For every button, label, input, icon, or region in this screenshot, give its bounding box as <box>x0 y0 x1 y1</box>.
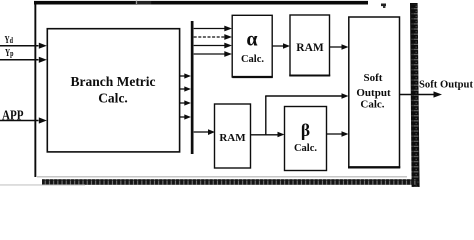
outer frame left edge <box>34 1 36 177</box>
wire beta to Soft Output <box>327 133 343 135</box>
outer frame bottom bar <box>0 177 418 186</box>
outer frame right bar <box>410 3 420 187</box>
wire bus to alpha 2 <box>194 36 225 38</box>
svg-text:α: α <box>246 29 257 51</box>
svg-text:Calc.: Calc. <box>241 54 264 65</box>
wire BM to bus 2 <box>180 88 186 90</box>
svg-text:Output: Output <box>356 87 391 99</box>
wire RAM2 to beta <box>251 134 279 136</box>
svg-text:Branch Metric: Branch Metric <box>70 74 155 89</box>
svg-text:Soft Output: Soft Output <box>419 79 473 91</box>
wire BM to bus 1 <box>180 75 186 77</box>
wire BM to bus 3 <box>180 102 186 104</box>
block RAM (lower) <box>215 104 251 168</box>
svg-text:Yd: Yd <box>5 35 14 46</box>
wire input Yp <box>0 59 39 61</box>
block RAM (upper) <box>289 15 330 76</box>
wire bus to alpha 3 <box>194 45 225 47</box>
speck noise <box>383 6 385 8</box>
wire bus to RAM2 <box>194 131 209 133</box>
svg-text:Calc.: Calc. <box>294 143 317 154</box>
block beta Calc. <box>285 107 327 171</box>
block Soft Output Calc. <box>348 17 400 168</box>
wire Soft Output result <box>400 94 434 96</box>
block alpha Calc. <box>232 15 273 77</box>
svg-text:β: β <box>301 120 310 140</box>
bus (pipeline register bar) <box>191 21 194 154</box>
wire riser junction to Soft Output <box>265 93 348 135</box>
wire input APP <box>0 120 39 122</box>
svg-text:Calc.: Calc. <box>360 99 384 111</box>
svg-text:Yp: Yp <box>5 48 14 59</box>
wire alpha to RAM1 <box>273 45 284 47</box>
svg-text:Soft: Soft <box>364 72 383 84</box>
wire RAM1 to Soft Output <box>330 46 343 48</box>
svg-text:Calc.: Calc. <box>98 91 128 106</box>
wire bus to alpha 4 <box>194 53 225 55</box>
wire BM to bus 4 <box>180 116 186 118</box>
wire input Yd <box>0 45 39 47</box>
svg-text:RAM: RAM <box>296 42 324 54</box>
svg-text:RAM: RAM <box>219 132 246 144</box>
wire bus to alpha 1 <box>194 28 225 30</box>
outer frame top bar <box>34 1 368 5</box>
block Branch Metric Calc. <box>47 29 179 152</box>
